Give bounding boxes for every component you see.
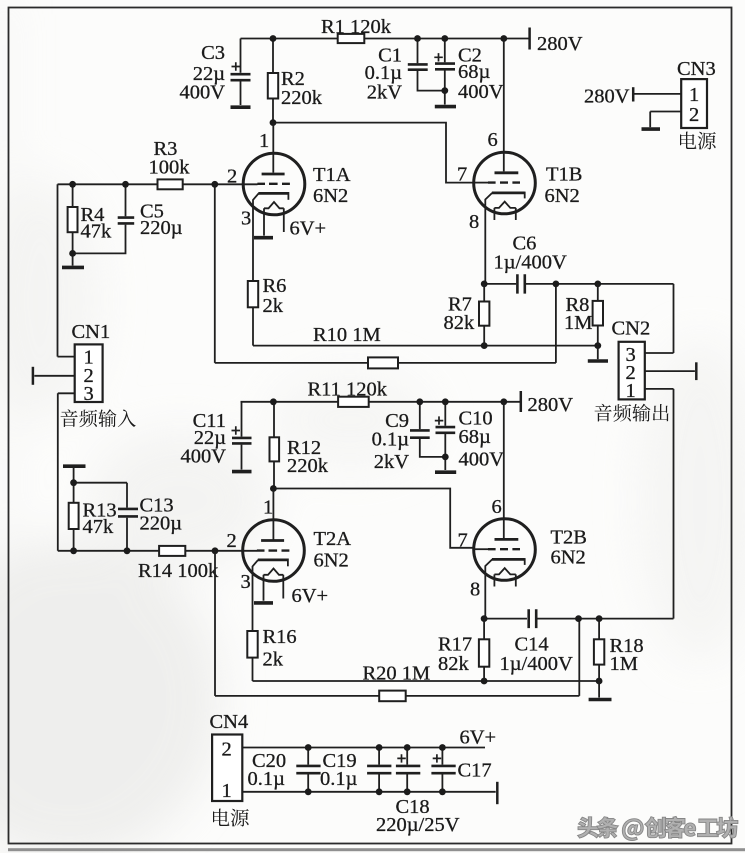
junction dots bus1 (270, 35, 508, 94)
svg-text:47k: 47k (83, 516, 115, 538)
svg-text:220µ/25V: 220µ/25V (376, 814, 460, 836)
capacitor C9 (372, 402, 446, 473)
svg-text:280V: 280V (537, 33, 583, 55)
svg-text:1µ/400V: 1µ/400V (494, 252, 568, 274)
svg-text:T2B: T2B (551, 527, 587, 549)
capacitor C1 (365, 39, 445, 104)
svg-text:220µ: 220µ (140, 513, 183, 535)
wire T2B pin6 (503, 402, 505, 539)
power return terminal tick (496, 782, 499, 804)
ground T2A heater (254, 601, 273, 605)
svg-text:1µ/400V: 1µ/400V (500, 653, 574, 675)
capacitor C13 (74, 483, 183, 551)
node R17 bottom (481, 678, 488, 685)
ground below C10 (435, 470, 456, 474)
svg-text:6N2: 6N2 (551, 547, 586, 569)
svg-text:T1B: T1B (546, 164, 582, 186)
svg-text:1: 1 (222, 780, 232, 802)
resistor R8 (564, 284, 603, 346)
svg-text:2: 2 (222, 739, 232, 761)
svg-text:1: 1 (263, 497, 273, 519)
node R7 bottom (481, 342, 488, 349)
output node wire2 pin8 (484, 618, 673, 620)
wire CN3 pin2 to ground (650, 112, 681, 128)
resistor R16 (247, 626, 296, 681)
connector CN4 (210, 711, 249, 802)
svg-text:R1 120k: R1 120k (321, 16, 392, 38)
node R18 bottom (596, 678, 603, 685)
capacitor C11 (180, 402, 251, 470)
svg-text:0.1µ: 0.1µ (320, 768, 358, 790)
svg-text:CN4: CN4 (210, 711, 249, 733)
svg-text:CN3: CN3 (677, 58, 716, 80)
wire 6V+ rail (242, 747, 485, 749)
svg-text:2kV: 2kV (374, 451, 410, 473)
resistor R10 feedback (215, 184, 556, 368)
svg-text:1: 1 (689, 84, 699, 106)
svg-text:2: 2 (227, 166, 237, 188)
svg-text:6V+: 6V+ (460, 727, 497, 749)
svg-text:400V: 400V (180, 446, 226, 468)
triode T1A (227, 130, 351, 281)
wire T2A grid pin2 from R14 (58, 550, 257, 552)
svg-text:CN1: CN1 (72, 321, 111, 343)
triode T1B (457, 129, 582, 284)
page bottom edge band (8, 848, 745, 851)
svg-text:T1A: T1A (313, 164, 351, 186)
wire CN1 pin1 up to grid rail (58, 184, 75, 356)
280V terminal tick bus2 (520, 391, 523, 412)
node R8 bottom (594, 342, 601, 349)
svg-text:3: 3 (84, 383, 94, 405)
svg-text:68µ: 68µ (459, 426, 492, 448)
svg-text:6: 6 (488, 129, 498, 151)
wire CN1 pin3 down to channel2 (58, 393, 75, 551)
resistor R11 (308, 379, 388, 407)
wire T1B pin6 (503, 39, 505, 172)
ground return wire R6/R7/R8 (253, 345, 598, 347)
svg-text:1M: 1M (564, 312, 592, 334)
wire T1A pin1 (272, 123, 274, 173)
label CN4 power (213, 809, 249, 827)
svg-text:6N2: 6N2 (313, 185, 348, 207)
svg-text:R20 1M: R20 1M (363, 663, 431, 685)
input terminal tick (32, 367, 35, 385)
svg-text:220µ: 220µ (140, 217, 183, 239)
wire bus2 280V rail (241, 401, 521, 403)
capacitor C19 (320, 748, 391, 792)
svg-text:0.1µ: 0.1µ (248, 768, 286, 790)
node R13/C13 (70, 479, 218, 554)
resistor R14 (138, 546, 219, 582)
resistor R12 (270, 402, 329, 489)
svg-text:280V: 280V (584, 86, 630, 108)
label audio output (595, 404, 669, 422)
wire CN2 pin2 output (645, 370, 695, 372)
junction dots bus2 (270, 398, 507, 460)
capacitor C5 (73, 184, 183, 253)
svg-text:C3: C3 (201, 42, 225, 64)
svg-text:2k: 2k (263, 295, 284, 317)
resistor R13 (69, 468, 117, 551)
ground below C11 (232, 470, 252, 474)
watermark (578, 816, 738, 840)
ground below CN3 pin2 (642, 127, 661, 131)
280V terminal tick top (528, 28, 531, 50)
svg-text:CN2: CN2 (612, 318, 651, 340)
svg-text:6N2: 6N2 (314, 550, 349, 572)
ground return wire R16/R17/R18 (253, 680, 600, 682)
ground below R4 (62, 266, 84, 270)
wire CN2 pin1 down to channel2 output (645, 389, 674, 619)
junction dots output node2 (481, 615, 603, 622)
wire R12 bottom to T2B grid (273, 489, 473, 548)
resistor R1 (321, 16, 392, 43)
svg-text:220k: 220k (281, 87, 323, 109)
ground below R18 (589, 681, 612, 700)
wire T2A pin1 (272, 489, 274, 540)
svg-text:400V: 400V (179, 82, 225, 104)
svg-text:R10 1M: R10 1M (313, 324, 381, 346)
ground below R8 (588, 346, 608, 361)
connector CN1 (72, 321, 111, 405)
node R12/T2A pin1 (270, 485, 277, 492)
svg-text:280V: 280V (528, 394, 574, 416)
capacitor C6 (494, 233, 568, 294)
ground below C3 (231, 105, 251, 109)
wire power return rail (242, 791, 495, 793)
resistor R4 (68, 184, 112, 265)
svg-text:R16: R16 (263, 626, 297, 648)
node R4 top / C5 top / R10 tap (69, 181, 218, 257)
svg-text:6: 6 (492, 496, 502, 518)
triode T2B (458, 496, 587, 619)
node R2/T1A pin1 (270, 119, 277, 126)
svg-text:1: 1 (259, 130, 269, 152)
svg-text:8: 8 (469, 211, 479, 233)
wire bus1 280V rail top (241, 38, 530, 40)
svg-text:T2A: T2A (314, 528, 352, 550)
output node wire pin8 to CN2 (484, 284, 673, 353)
svg-text:100k: 100k (149, 157, 191, 179)
svg-text:1M: 1M (610, 653, 638, 675)
svg-text:220k: 220k (287, 455, 329, 477)
svg-text:2k: 2k (263, 649, 284, 671)
resistor R7 (444, 284, 490, 346)
svg-text:7: 7 (458, 530, 468, 552)
resistor R2 (268, 39, 323, 123)
svg-text:6V+: 6V+ (290, 218, 327, 240)
svg-text:68µ: 68µ (458, 61, 491, 83)
ground below C2 (435, 105, 456, 109)
svg-text:3: 3 (241, 571, 251, 593)
svg-text:47k: 47k (81, 221, 113, 243)
output terminal tick (695, 362, 698, 380)
junction dots power rails (305, 744, 446, 795)
svg-text:2: 2 (227, 530, 237, 552)
svg-text:8: 8 (470, 579, 480, 601)
capacitor C14 (500, 609, 574, 675)
connector CN2 (612, 318, 651, 403)
label CN3 power (680, 132, 716, 150)
280V terminal tick CN3 (632, 87, 635, 101)
svg-text:R11 120k: R11 120k (308, 379, 388, 401)
triode T2A (227, 497, 352, 632)
resistor R3 (149, 138, 191, 189)
ground above R13 (63, 464, 86, 468)
svg-text:2kV: 2kV (367, 82, 403, 104)
svg-text:82k: 82k (444, 312, 476, 334)
svg-text:R6: R6 (263, 275, 287, 297)
svg-text:400V: 400V (458, 81, 504, 103)
resistor R17 (438, 619, 489, 681)
svg-text:400V: 400V (459, 449, 505, 471)
svg-text:C17: C17 (458, 760, 492, 782)
capacitor C20 (248, 748, 321, 792)
wire CN1 pin2 input (34, 375, 74, 377)
label audio input (61, 409, 136, 427)
wire CN3 pin1 280V (634, 93, 681, 95)
svg-text:7: 7 (457, 164, 467, 186)
svg-text:3: 3 (241, 208, 251, 230)
resistor R6 (248, 275, 287, 346)
svg-text:R14 100k: R14 100k (138, 560, 219, 582)
capacitor C17 (431, 748, 491, 792)
capacitor C18 (376, 748, 460, 837)
svg-text:2: 2 (689, 104, 699, 126)
ground T1A heater (254, 236, 273, 240)
svg-text:6V+: 6V+ (292, 585, 329, 607)
resistor R18 (594, 619, 644, 681)
capacitor C3 (179, 39, 250, 106)
junction dots output node (481, 281, 601, 288)
svg-text:0.1µ: 0.1µ (372, 429, 410, 451)
connector CN3 (677, 58, 716, 128)
wire R2 bottom to T1B grid (273, 123, 474, 183)
capacitor C10 (435, 402, 504, 471)
capacitor C2 (434, 39, 503, 105)
svg-text:82k: 82k (438, 653, 470, 675)
resistor R20 feedback (215, 551, 579, 701)
wire T1A grid pin2 from R3 (58, 183, 258, 185)
svg-text:6N2: 6N2 (545, 185, 580, 207)
svg-text:1: 1 (626, 380, 636, 402)
